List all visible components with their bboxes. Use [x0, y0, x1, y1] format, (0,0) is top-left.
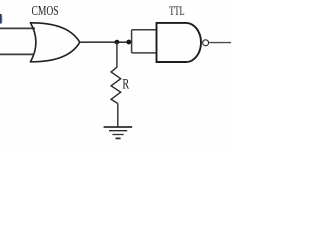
- svg-text:CMOS: CMOS: [32, 3, 59, 18]
- svg-text:TTL: TTL: [169, 4, 185, 18]
- svg-text:R: R: [122, 76, 129, 92]
